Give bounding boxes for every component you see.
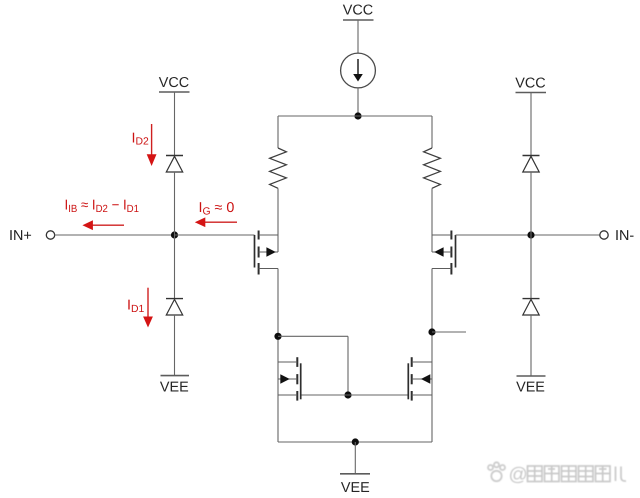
- wire Q2 source down: [431, 269, 433, 443]
- JFET Q2 (right input transistor): [432, 231, 456, 275]
- wire left resistor to Q1 drain: [277, 188, 279, 252]
- wire rail to VEE: [354, 442, 356, 474]
- wire gate line Q3 to Q4: [301, 394, 409, 396]
- arrow ID1 (down): [143, 288, 153, 328]
- power label VCC (right diode branch): [515, 76, 546, 93]
- power label VCC (top, current source branch): [343, 3, 374, 21]
- wire VCC to diode D3: [530, 93, 532, 156]
- diode D3 (upper right): [523, 156, 540, 173]
- node: Q1 source / mirror drain junction: [274, 333, 281, 340]
- svg-text:VCC: VCC: [343, 3, 373, 19]
- svg-text:IN-: IN-: [615, 228, 634, 244]
- watermark: [488, 462, 626, 485]
- svg-text:ID2: ID2: [132, 130, 149, 147]
- power label VEE (right): [516, 376, 545, 396]
- arrow IG (left): [195, 217, 237, 227]
- svg-text:VEE: VEE: [160, 379, 189, 395]
- JFET Q1 (left input transistor): [255, 231, 279, 275]
- wire rail to left resistor: [277, 116, 279, 148]
- svg-text:VEE: VEE: [516, 380, 545, 396]
- wire D3 to node B and node B to D4: [530, 172, 532, 299]
- wire VCC to diode D2: [174, 92, 176, 156]
- arrow ID2 (down): [147, 124, 157, 166]
- node: mirror gate junction: [344, 391, 351, 398]
- node: tail junction: [354, 112, 361, 119]
- wire D4 to VEE: [530, 315, 532, 376]
- wire rail to right resistor: [431, 116, 433, 148]
- wire D2 to node A and node A to D1: [174, 172, 176, 299]
- svg-text:VEE: VEE: [341, 480, 370, 496]
- wire current source to tail rail: [357, 88, 359, 116]
- arrow IIB (left): [82, 220, 124, 230]
- diode D4 (lower right): [523, 299, 540, 315]
- wire mirror diode connection horizontal: [278, 335, 348, 337]
- node: output tap junction: [428, 328, 435, 335]
- svg-text:ID1: ID1: [127, 297, 144, 314]
- power label VCC (left diode branch): [159, 75, 190, 92]
- wire Q2 gate to IN-: [456, 234, 600, 236]
- wire right resistor to Q2 drain: [431, 188, 433, 252]
- wire tail rail: [278, 115, 432, 117]
- resistor left load: [270, 148, 287, 188]
- resistor right load: [424, 148, 441, 188]
- power label VEE (bottom): [340, 474, 370, 496]
- wire D1 to VEE: [174, 315, 176, 376]
- wire mirror diode connection vertical: [347, 336, 349, 395]
- node B (IN- / diode junction): [527, 231, 534, 238]
- current source I1: [341, 53, 376, 88]
- terminal IN-: [600, 231, 608, 239]
- wire VCC bar to current source: [357, 20, 359, 53]
- svg-text:@: @: [509, 465, 528, 486]
- diode D2 (upper left): [166, 156, 183, 173]
- wire IN+ to node A: [55, 234, 175, 236]
- wire bottom rail: [278, 441, 432, 443]
- svg-text:IIB ≈ ID2 − ID1: IIB ≈ ID2 − ID1: [65, 198, 140, 215]
- node: bottom rail junction: [352, 438, 359, 445]
- wire node A to Q1 gate: [175, 234, 255, 236]
- node A (IN+ / diode junction): [171, 231, 178, 238]
- wire Q1 source down: [277, 269, 279, 443]
- terminal IN+: [46, 231, 54, 239]
- transistor Q4 (mirror, right): [408, 357, 432, 400]
- svg-text:IN+: IN+: [9, 228, 32, 244]
- diode D1 (lower left): [166, 299, 183, 315]
- wire output stub: [432, 331, 466, 333]
- svg-text:IG ≈ 0: IG ≈ 0: [199, 200, 235, 217]
- transistor Q3 (mirror, left): [278, 357, 301, 400]
- power label VEE (left): [160, 376, 189, 396]
- svg-text:VCC: VCC: [515, 76, 545, 92]
- svg-text:VCC: VCC: [159, 75, 189, 91]
